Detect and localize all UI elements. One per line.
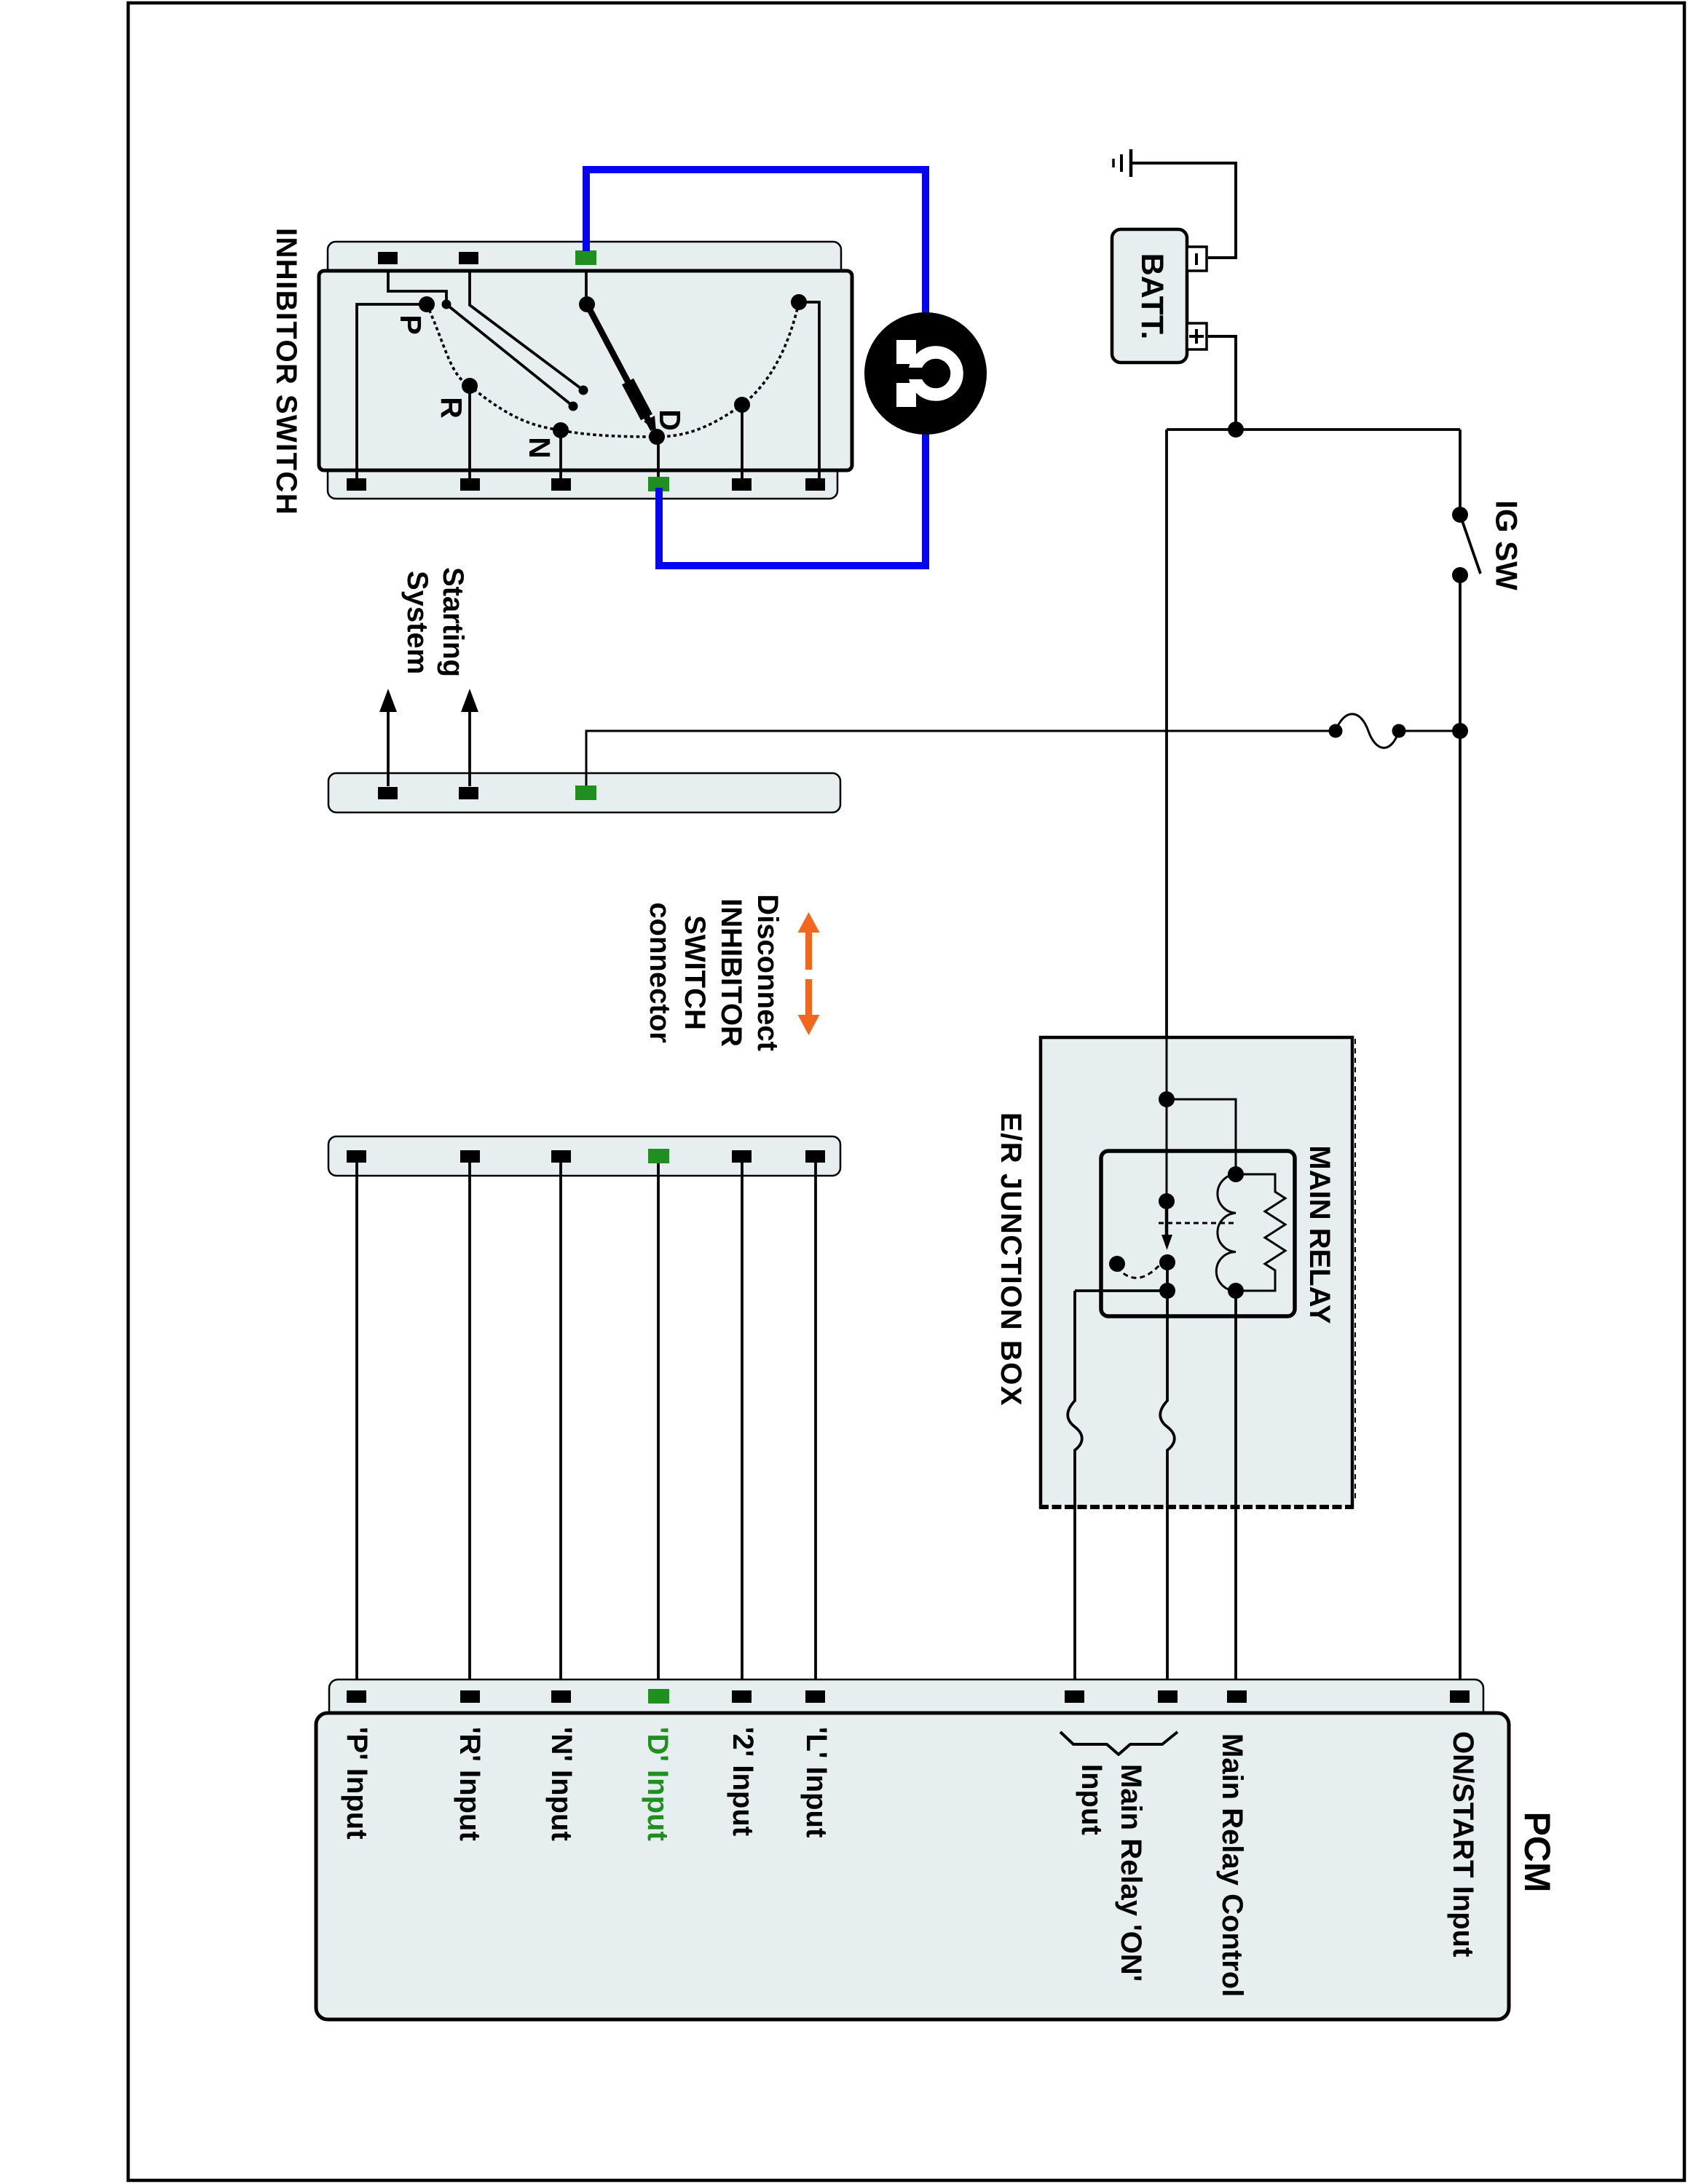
svg-text:PCM: PCM	[1517, 1811, 1558, 1892]
svg-text:Disconnect: Disconnect	[752, 894, 784, 1051]
svg-text:BATT.: BATT.	[1135, 253, 1170, 340]
svg-text:R: R	[435, 397, 468, 419]
svg-text:Starting: Starting	[437, 567, 469, 677]
svg-text:IG SW: IG SW	[1490, 500, 1524, 590]
svg-text:E/R JUNCTION BOX: E/R JUNCTION BOX	[995, 1112, 1027, 1406]
svg-text:'L' Input: 'L' Input	[800, 1727, 832, 1837]
svg-text:System: System	[401, 571, 433, 674]
svg-text:connector: connector	[644, 902, 676, 1042]
svg-text:'P' Input: 'P' Input	[341, 1727, 373, 1840]
svg-text:D: D	[653, 409, 687, 431]
svg-text:N: N	[523, 437, 556, 459]
svg-text:P: P	[394, 314, 427, 334]
svg-text:Input: Input	[1076, 1764, 1108, 1835]
svg-text:INHIBITOR: INHIBITOR	[715, 898, 747, 1047]
svg-text:INHIBITOR SWITCH: INHIBITOR SWITCH	[270, 228, 302, 515]
svg-text:MAIN RELAY: MAIN RELAY	[1304, 1145, 1336, 1324]
svg-text:'D' Input: 'D' Input	[642, 1727, 674, 1841]
svg-text:'R' Input: 'R' Input	[454, 1727, 486, 1841]
svg-text:Main Relay Control: Main Relay Control	[1216, 1733, 1248, 1997]
svg-text:'N' Input: 'N' Input	[545, 1727, 577, 1841]
svg-text:'2' Input: '2' Input	[727, 1727, 759, 1836]
svg-text:Main Relay 'ON': Main Relay 'ON'	[1115, 1764, 1147, 1982]
svg-text:SWITCH: SWITCH	[679, 915, 711, 1030]
svg-text:ON/START Input: ON/START Input	[1447, 1731, 1479, 1957]
